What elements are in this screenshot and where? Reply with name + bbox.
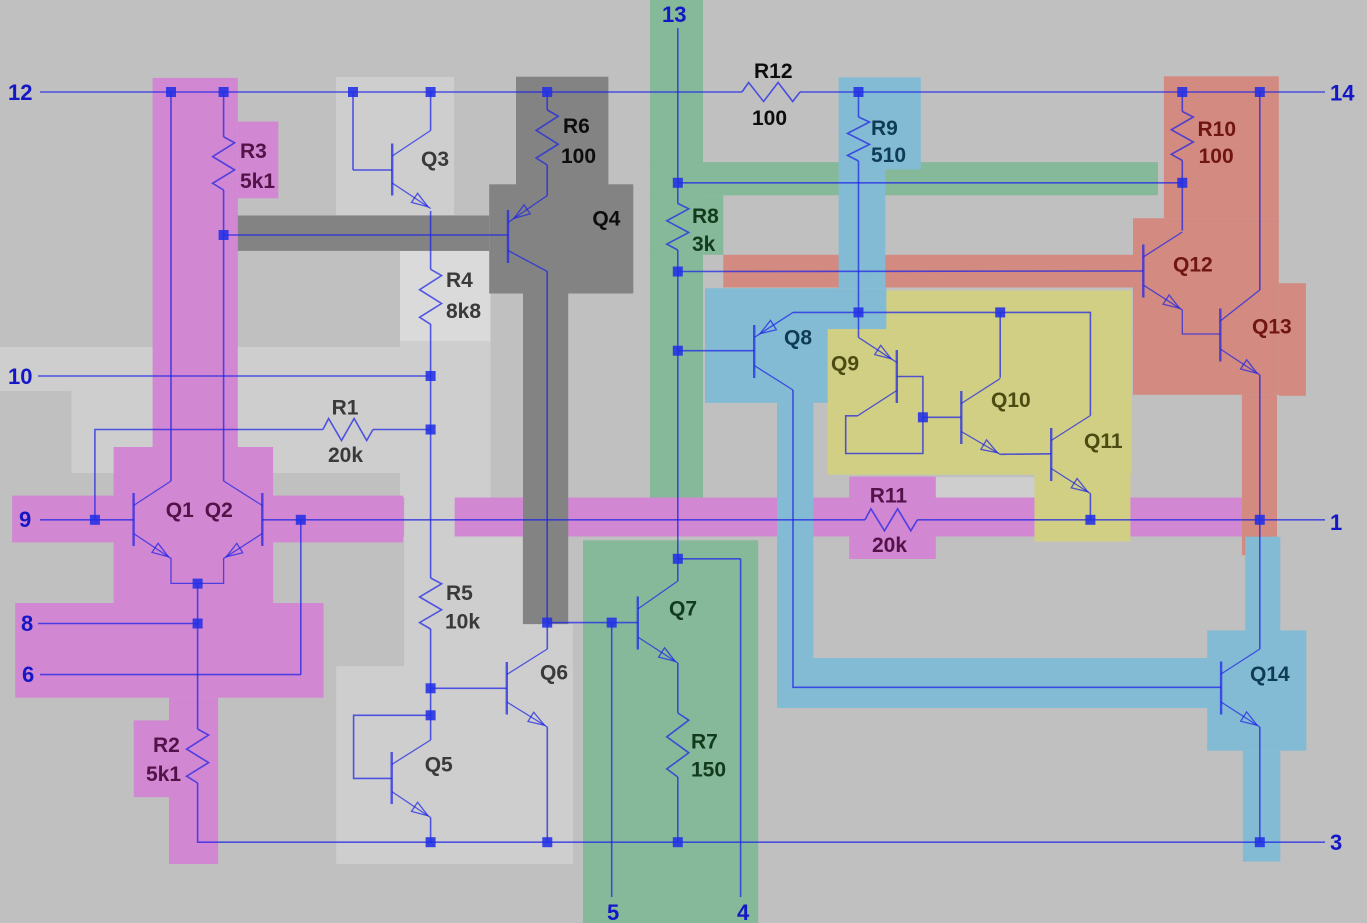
junction Q9 base-collector/Q10 base <box>918 412 928 422</box>
wire node 13-column down to Q7 collector junction <box>677 250 679 559</box>
svg-text:9: 9 <box>19 507 31 532</box>
wire Q9 collector loop <box>846 416 923 454</box>
wire green band node to R10 bottom <box>678 182 1183 184</box>
wire R9 bottom to node y312 <box>858 161 860 312</box>
wire Q14 emitter to pin 3 rail <box>1259 727 1261 842</box>
highlight sliver below yellow (light gray) <box>934 477 1036 498</box>
pink region: long band to pin 1 <box>403 498 1242 537</box>
junction Q7 base/pin5 <box>607 618 617 628</box>
svg-text:Q1: Q1 <box>166 499 194 522</box>
svg-text:R5: R5 <box>446 582 473 605</box>
transistor Q9 (pnp) <box>896 350 898 403</box>
resistor R9 <box>848 117 870 161</box>
svg-text:10: 10 <box>8 364 32 389</box>
svg-text:Q2: Q2 <box>205 499 233 522</box>
svg-text:100: 100 <box>752 107 787 130</box>
transistor Q3 <box>391 144 393 196</box>
junction common emitters Q1 Q2 <box>193 579 203 589</box>
resistor R2 <box>187 729 209 783</box>
wire Q10 emitter to Q11 base <box>1000 453 1051 456</box>
svg-text:R10: R10 <box>1198 118 1237 141</box>
wire to pin 4 column <box>678 558 741 560</box>
wire pin 9 to Q1 base <box>40 519 134 521</box>
junction Q10 collector <box>995 307 1005 317</box>
wire R7 bottom to pin 3 rail <box>677 777 679 842</box>
blue region: Q14 collector column <box>1245 537 1280 631</box>
junction R7/pin3 rail <box>673 837 683 847</box>
svg-text:5k1: 5k1 <box>146 763 181 786</box>
junction Q5 base-collector <box>426 710 436 720</box>
svg-text:R7: R7 <box>691 731 718 754</box>
transistor Q4 (pnp) <box>507 210 509 263</box>
blue region: Q14 emitter column <box>1243 751 1280 862</box>
wire Q6 emitter down <box>546 727 548 842</box>
blue region: band to Q14 base <box>777 658 1207 708</box>
transistor Q14 <box>1220 662 1222 715</box>
wire Q8 collector to Q14 base <box>793 390 1221 687</box>
highlight group R1 (light gray) <box>72 391 426 473</box>
svg-text:12: 12 <box>8 80 32 105</box>
red region: R10 box <box>1164 76 1279 218</box>
svg-text:Q8: Q8 <box>784 327 812 350</box>
red region: Q12 Q13 box <box>1133 218 1279 395</box>
junction R10/green band <box>1177 178 1187 188</box>
wire Q7 emitter to R7 <box>677 663 679 713</box>
svg-text:14: 14 <box>1330 81 1355 106</box>
wire R11 to pin 1 <box>917 519 1325 521</box>
svg-text:Q10: Q10 <box>991 389 1031 412</box>
svg-text:13: 13 <box>662 2 686 27</box>
blue region: Q14 box <box>1207 630 1306 750</box>
resistor R12 <box>742 83 800 102</box>
svg-text:R1: R1 <box>332 397 359 420</box>
yellow region: Q9 Q10 Q11 box <box>828 329 1132 475</box>
wire node down to Q9 emitter <box>858 312 860 337</box>
wire Q2 base node to R11 <box>262 519 865 521</box>
highlight group Q5 Q6 (light gray) <box>336 666 573 864</box>
wire Q3 emitter to R4 <box>430 211 432 269</box>
junction R3/Q4 base <box>219 230 229 240</box>
junction rail/Q13 collector <box>1255 87 1265 97</box>
highlight strip pin 10 (light gray) <box>0 347 425 391</box>
wire Q5 base loop <box>354 715 431 778</box>
blue region: Q8 box <box>705 288 886 403</box>
junction pin9/R1 <box>90 515 100 525</box>
wire pin 6 <box>40 674 301 676</box>
transistor Q11 <box>1050 428 1052 481</box>
transistor Q5 <box>391 752 393 804</box>
pink region: R2 label box <box>134 720 186 797</box>
svg-text:100: 100 <box>561 145 596 168</box>
resistor R5 <box>420 578 442 629</box>
junction pin8/R2 column <box>193 619 203 629</box>
junction node13/Q12 base wire <box>673 267 683 277</box>
wire pin 12 rail left segment <box>40 91 742 93</box>
junction R1/R4 column <box>426 425 436 435</box>
wire pin 4 drop <box>740 559 742 897</box>
green region: horizontal band y=183 <box>650 162 1158 195</box>
wire Q8 emitter node to Q11 collector <box>793 312 1090 415</box>
wire junction down to Q2 collector <box>223 235 225 481</box>
svg-text:Q5: Q5 <box>425 754 453 777</box>
pink region: pin 9 stub <box>12 496 114 543</box>
svg-text:5: 5 <box>607 900 619 923</box>
svg-text:R3: R3 <box>240 140 267 163</box>
wire R1 left lead <box>95 430 323 520</box>
svg-text:R8: R8 <box>692 205 719 228</box>
svg-text:R6: R6 <box>563 115 590 138</box>
svg-text:100: 100 <box>1199 145 1234 168</box>
wire pin 12 rail right segment <box>800 91 1325 93</box>
pink region: R3 label box <box>238 122 278 199</box>
highlight group R4 (lighter gray) <box>400 251 491 341</box>
highlight column above Q5 Q6 (light gray) <box>404 537 522 667</box>
pink region: R2 column <box>169 698 218 864</box>
green region: pin13/R8 column <box>650 0 703 498</box>
wire R1 right lead <box>373 429 431 431</box>
junction rail/Q1 collector <box>166 87 176 97</box>
highlight column R4-R5 (light gray) <box>400 341 491 498</box>
svg-text:5k1: 5k1 <box>240 170 275 193</box>
blue region: R9 column <box>839 170 886 289</box>
pink region: pins 8/6 box <box>15 603 323 698</box>
red region: Q13 emitter column <box>1242 395 1277 556</box>
svg-text:20k: 20k <box>328 444 363 467</box>
wire rail down to Q3 collector <box>430 92 432 131</box>
svg-text:Q6: Q6 <box>540 662 568 685</box>
svg-text:Q14: Q14 <box>1250 663 1290 686</box>
junction Q14 emitter/pin3 rail <box>1255 837 1265 847</box>
svg-text:510: 510 <box>871 144 906 167</box>
wire Q10 collector up <box>999 312 1001 377</box>
svg-text:8: 8 <box>21 611 33 636</box>
transistor Q7 <box>637 597 639 650</box>
junction rail/Q3 collector <box>426 87 436 97</box>
dark gray region: Q4 box <box>489 184 633 293</box>
dark gray region: Q4 collector column <box>523 294 568 625</box>
wire R6 bottom to Q4 emitter <box>546 165 548 196</box>
svg-text:Q11: Q11 <box>1084 430 1123 453</box>
junction Q11 emitter/pin1 wire <box>1085 515 1095 525</box>
junction node13/Q8 base wire <box>673 346 683 356</box>
yellow region: Q11 emitter column <box>1035 475 1131 542</box>
junction R5/Q6 base <box>426 683 436 693</box>
wire node to Q4 base <box>224 234 508 236</box>
wire node to Q8 base <box>678 350 754 352</box>
svg-text:R12: R12 <box>754 60 793 83</box>
wire rail to R3 <box>223 92 225 137</box>
junction Q5 emitter/pin3 rail <box>426 837 436 847</box>
transistor Q6 <box>506 662 508 715</box>
wire R3 bottom to junction <box>223 190 225 235</box>
resistor R1 <box>323 419 373 441</box>
dark gray region: R6 box <box>516 77 608 188</box>
wire rail down to Q3 base loop <box>352 92 354 170</box>
red region: Q13 label extension <box>1279 283 1306 396</box>
pink region: R11 label box <box>849 477 936 559</box>
junction rail/Q3 base <box>348 87 358 97</box>
transistor Q12 <box>1142 245 1144 298</box>
svg-text:1: 1 <box>1330 510 1342 535</box>
svg-text:3: 3 <box>1330 830 1342 855</box>
resistor R6 <box>536 110 558 165</box>
wire pin 13 down to R8 <box>677 28 679 204</box>
wire rail down to Q13 collector <box>1259 92 1261 290</box>
junction Q2 base/pin6 <box>296 515 306 525</box>
green region: Q7/R7/pins 5-4 box <box>583 540 758 923</box>
wire pin 5 drop <box>611 623 613 897</box>
transistor Q2 <box>261 493 263 546</box>
resistor R11 <box>865 509 917 531</box>
wire common emitter node down to R2 <box>197 583 199 729</box>
wire pin 10 <box>38 375 431 377</box>
wire pin 6 up to Q2 base node <box>300 520 302 675</box>
wire junction to Q10 base <box>923 416 961 418</box>
svg-text:R2: R2 <box>153 734 180 757</box>
highlight group Q3 (light gray) <box>336 77 454 215</box>
svg-text:Q13: Q13 <box>1252 316 1292 339</box>
junction R9/Q9 emitter <box>854 307 864 317</box>
wire R4 bottom through pin10/R1 nodes to R5 <box>430 324 432 578</box>
resistor R8 <box>667 204 689 251</box>
resistor R3 <box>213 137 235 190</box>
junction pin1/Q13-Q14 <box>1255 515 1265 525</box>
transistor Q1 <box>132 493 134 546</box>
wire Q4 collector column <box>546 272 548 623</box>
yellow region: top strip <box>886 291 1131 330</box>
junction rail/R9 <box>854 87 864 97</box>
wire junction to Q7 collector <box>677 559 679 581</box>
resistor R4 <box>420 269 442 324</box>
junction rail/R3 <box>219 87 229 97</box>
junction rail/R6 <box>542 87 552 97</box>
wire Q9 base to junction <box>897 377 923 418</box>
pink region: Q1 Q2 box <box>114 447 274 603</box>
svg-text:150: 150 <box>691 758 726 781</box>
junction Q7 collector/pin4 <box>673 554 683 564</box>
wire R12 node down to R9 <box>858 92 860 117</box>
pink region: top band (Q1/Q2 collectors, R3) <box>153 78 238 447</box>
wire rail to R6 <box>546 92 548 110</box>
wire Q3 base <box>353 169 392 171</box>
wire Q13 emitter to pin 1 node <box>1259 375 1261 520</box>
wire rail to R10 <box>1181 92 1183 112</box>
dark gray region: Q4 base band <box>238 216 489 251</box>
wire Q5 emitter down <box>430 818 432 843</box>
junction node13/green band <box>673 178 683 188</box>
wire junction to Q6 collector <box>546 623 548 649</box>
svg-text:Q4: Q4 <box>592 207 620 230</box>
svg-text:Q7: Q7 <box>669 598 697 621</box>
wire rail down to Q1 collector <box>170 92 172 481</box>
svg-text:8k8: 8k8 <box>446 300 481 323</box>
green region: R8 label box <box>650 195 723 255</box>
svg-text:Q3: Q3 <box>421 148 449 171</box>
wire R2 bottom / pin 3 rail <box>198 783 1325 842</box>
wire pin 1 node down to Q14 collector <box>1259 520 1261 649</box>
blue region: Q8 collector column <box>777 403 813 658</box>
light gray patch over pink band <box>404 498 455 537</box>
svg-text:10k: 10k <box>445 611 480 634</box>
svg-text:20k: 20k <box>872 534 907 557</box>
svg-text:Q12: Q12 <box>1173 253 1213 276</box>
red region: Q12 base band <box>723 255 1135 288</box>
blue region: R9 label box <box>839 77 921 169</box>
wire R10 bottom to green-band junction <box>1181 161 1183 183</box>
junction rail/R10 <box>1177 87 1187 97</box>
resistor R7 <box>667 713 689 777</box>
svg-text:R9: R9 <box>871 117 898 140</box>
junction pin10/R4 column <box>426 371 436 381</box>
junction Q6 emitter/pin3 rail <box>542 837 552 847</box>
wire R5 bottom to Q5 collector <box>430 629 432 740</box>
transistor Q8 (pnp) <box>753 325 755 378</box>
svg-text:R4: R4 <box>446 269 473 292</box>
resistor R10 <box>1171 112 1193 161</box>
svg-text:3k: 3k <box>692 233 716 256</box>
highlight patch right of dark column (light gray) <box>522 624 572 666</box>
pink region: right of Q2 stub <box>273 496 403 543</box>
svg-text:4: 4 <box>737 900 750 923</box>
wire node to Q12 base <box>678 270 1144 273</box>
svg-text:R11: R11 <box>870 484 908 507</box>
transistor Q13 <box>1219 309 1221 362</box>
svg-text:Q9: Q9 <box>831 352 859 375</box>
wire Q6 base <box>431 687 507 689</box>
wire to Q7 base <box>547 622 638 624</box>
junction Q4 collector/Q6 collector <box>542 618 552 628</box>
transistor Q10 <box>960 391 962 444</box>
wire junction down to Q12 collector <box>1181 183 1183 231</box>
wire Q11 emitter down <box>1089 494 1091 520</box>
wire pin 8 <box>38 623 198 625</box>
svg-text:6: 6 <box>22 662 34 687</box>
